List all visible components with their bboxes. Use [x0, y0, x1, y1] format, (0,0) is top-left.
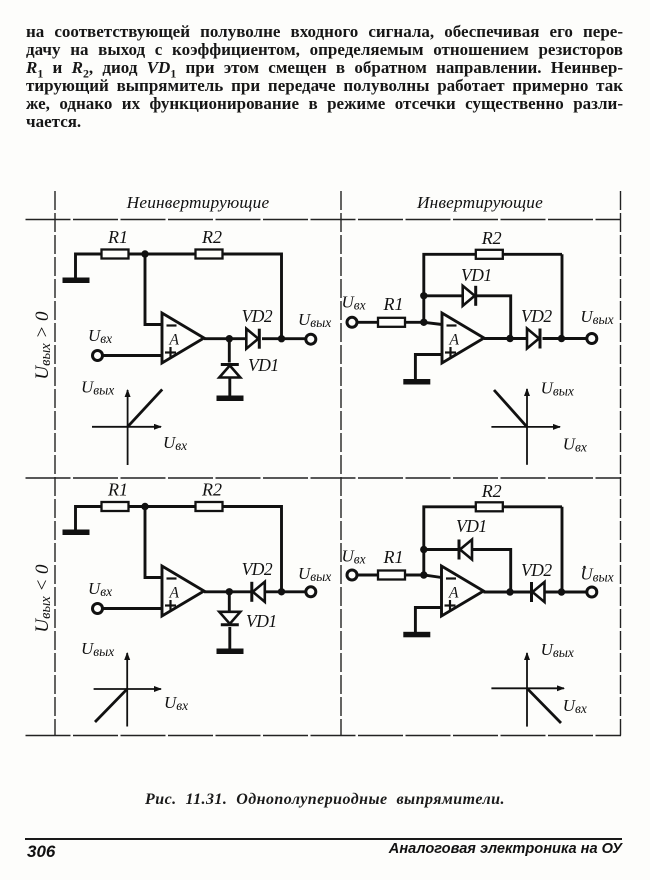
svg-text:R2: R2 — [481, 228, 502, 248]
svg-text:Uвых: Uвых — [541, 640, 574, 660]
svg-text:Uвх: Uвх — [342, 293, 366, 313]
svg-text:Uвых: Uвых — [298, 310, 331, 330]
svg-text:Uвых: Uвых — [580, 307, 613, 327]
svg-text:Uвх: Uвх — [163, 433, 187, 453]
svg-text:Uвых > 0: Uвых > 0 — [32, 311, 54, 380]
svg-text:Uвх: Uвх — [88, 326, 112, 346]
svg-text:Uвых: Uвых — [81, 378, 114, 398]
svg-text:R1: R1 — [107, 480, 128, 500]
svg-text:R1: R1 — [383, 294, 404, 314]
svg-text:Uвх: Uвх — [563, 435, 587, 455]
svg-text:Uвх: Uвх — [88, 579, 112, 599]
svg-text:VD1: VD1 — [456, 516, 487, 536]
svg-text:Неинвертирующие: Неинвертирующие — [126, 193, 270, 212]
svg-text:Uвых: Uвых — [81, 639, 114, 659]
svg-text:R1: R1 — [107, 227, 128, 247]
svg-text:Uвых < 0: Uвых < 0 — [32, 564, 54, 633]
svg-text:VD2: VD2 — [242, 306, 273, 326]
svg-text:R2: R2 — [201, 480, 222, 500]
svg-text:VD2: VD2 — [521, 560, 552, 580]
svg-text:Uвх: Uвх — [342, 547, 366, 567]
svg-text:Uвх: Uвх — [164, 693, 188, 713]
svg-text:VD1: VD1 — [461, 265, 492, 285]
svg-text:R2: R2 — [481, 481, 502, 501]
svg-text:VD1: VD1 — [248, 355, 279, 375]
svg-text:R1: R1 — [383, 547, 404, 567]
svg-text:VD1: VD1 — [246, 611, 277, 631]
svg-text:Uвых: Uвых — [298, 564, 331, 584]
svg-text:R2: R2 — [201, 227, 222, 247]
svg-text:VD2: VD2 — [521, 306, 552, 326]
svg-text:VD2: VD2 — [242, 559, 273, 579]
svg-text:Uвых: Uвых — [541, 379, 574, 399]
svg-text:Uвх: Uвх — [563, 696, 587, 716]
svg-text:Инвертирующие: Инвертирующие — [416, 193, 543, 212]
